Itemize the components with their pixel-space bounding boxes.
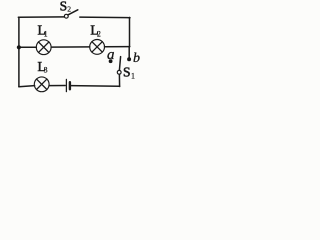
switch S1 pivot circle (117, 70, 121, 74)
svg-text:S: S (60, 0, 68, 14)
switch S1 blade (119, 57, 120, 71)
wire L3 to battery (49, 85, 65, 87)
switch S2 blade (68, 10, 78, 15)
svg-text:S: S (123, 64, 131, 79)
svg-text:b: b (133, 51, 140, 66)
wire battery to bottom right corner (71, 85, 119, 88)
wire middle between L1 and L2 (51, 46, 90, 48)
battery short plate (69, 82, 71, 89)
svg-text:1: 1 (131, 71, 135, 80)
wire S1 stub up from bottom wire (118, 74, 120, 86)
lamp L1 circle (36, 40, 51, 55)
wire middle left (node to L1) (19, 46, 37, 48)
svg-text:2: 2 (97, 29, 101, 38)
svg-text:1: 1 (44, 29, 48, 38)
junction dot left middle (17, 45, 21, 49)
switch S2 pivot circle (64, 14, 68, 18)
wire top right segment (80, 16, 130, 19)
lamp L1 cross (39, 42, 49, 52)
wire top left segment (18, 16, 64, 18)
lamp L3 circle (34, 77, 49, 92)
wire middle right (L2 to right edge) (105, 46, 130, 48)
lamp L2 circle (90, 40, 105, 55)
lamp L2 cross (92, 42, 102, 52)
wire bottom left segment (19, 86, 35, 87)
wire left edge (18, 17, 20, 87)
svg-text:a: a (107, 47, 115, 63)
node a dot (109, 59, 113, 63)
lamp L3 cross (37, 79, 47, 89)
svg-text:2: 2 (67, 5, 71, 14)
battery long plate (65, 79, 67, 91)
wire right edge upper (129, 17, 131, 46)
node b dot (127, 57, 131, 61)
svg-text:3: 3 (44, 66, 48, 75)
wire right edge lower to node b (128, 47, 130, 58)
